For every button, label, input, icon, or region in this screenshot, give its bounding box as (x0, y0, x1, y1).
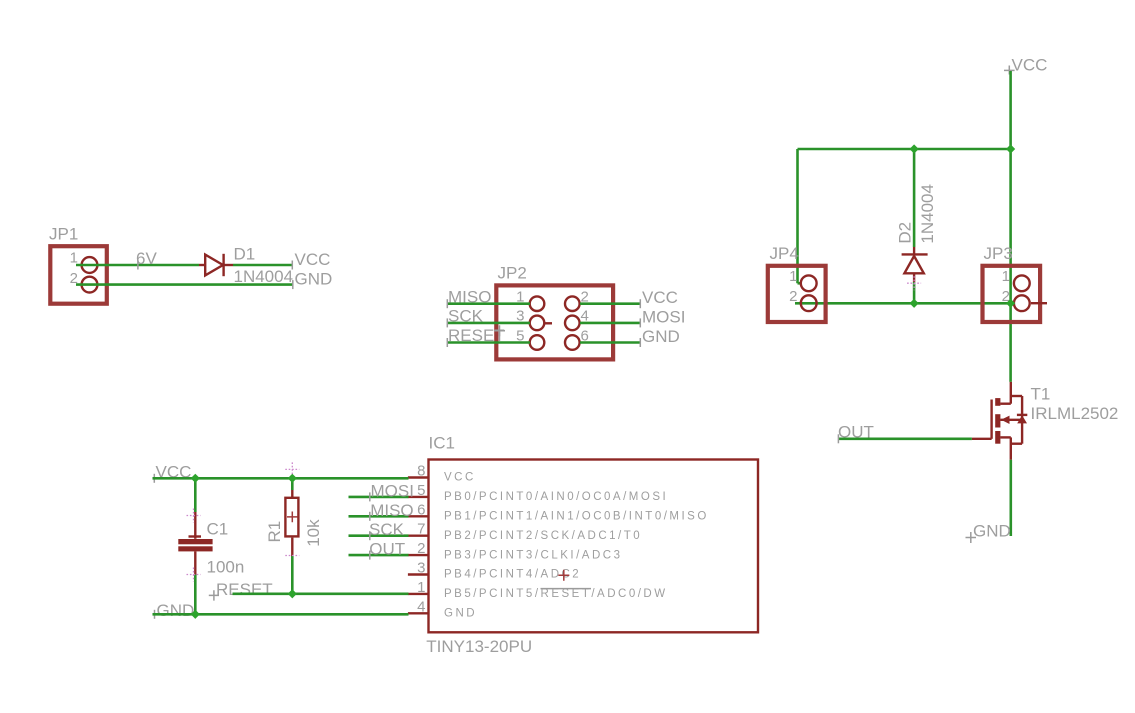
svg-text:IC1: IC1 (429, 434, 455, 453)
svg-text:1: 1 (417, 579, 425, 596)
svg-text:T1: T1 (1031, 385, 1051, 404)
svg-text:VCC: VCC (1012, 56, 1048, 75)
svg-text:GND: GND (295, 270, 333, 289)
svg-text:MOSI: MOSI (371, 481, 414, 500)
svg-text:3: 3 (417, 560, 425, 577)
svg-text:R1: R1 (265, 521, 284, 543)
svg-text:7: 7 (417, 521, 425, 538)
svg-text:1N4004: 1N4004 (234, 267, 294, 286)
svg-text:PB2/PCINT2/SCK/ADC1/T0: PB2/PCINT2/SCK/ADC1/T0 (444, 530, 642, 542)
svg-text:1: 1 (789, 268, 797, 285)
svg-text:D2: D2 (896, 222, 915, 244)
svg-text:2: 2 (417, 540, 425, 557)
svg-text:1N4004: 1N4004 (918, 184, 937, 244)
svg-text:SCK: SCK (369, 520, 405, 539)
svg-text:PB3/PCINT3/CLKI/ADC3: PB3/PCINT3/CLKI/ADC3 (444, 549, 622, 561)
svg-text:6: 6 (417, 501, 425, 518)
svg-text:C1: C1 (207, 520, 229, 539)
svg-text:MOSI: MOSI (642, 307, 685, 326)
svg-text:4: 4 (417, 598, 425, 615)
svg-text:RESET: RESET (448, 326, 505, 345)
svg-text:JP1: JP1 (49, 225, 78, 244)
svg-text:GND: GND (973, 522, 1011, 541)
svg-text:8: 8 (417, 463, 425, 480)
svg-text:100n: 100n (207, 558, 245, 577)
svg-text:GND: GND (642, 327, 680, 346)
svg-text:GND: GND (157, 601, 195, 620)
svg-text:VCC: VCC (444, 472, 476, 484)
svg-text:JP4: JP4 (770, 244, 799, 263)
svg-text:MISO: MISO (448, 287, 491, 306)
svg-text:VCC: VCC (642, 288, 678, 307)
svg-text:PB1/PCINT1/AIN1/OC0B/INT0/MISO: PB1/PCINT1/AIN1/OC0B/INT0/MISO (444, 511, 709, 523)
svg-text:PB5/PCINT5/RESET/ADC0/DW: PB5/PCINT5/RESET/ADC0/DW (444, 588, 668, 600)
svg-text:1: 1 (1002, 268, 1010, 285)
svg-text:VCC: VCC (295, 250, 331, 269)
svg-text:D1: D1 (234, 245, 256, 264)
svg-text:SCK: SCK (448, 307, 484, 326)
svg-text:OUT: OUT (838, 423, 874, 442)
svg-text:PB0/PCINT0/AIN0/OC0A/MOSI: PB0/PCINT0/AIN0/OC0A/MOSI (444, 491, 668, 503)
svg-text:GND: GND (444, 608, 477, 620)
svg-text:TINY13-20PU: TINY13-20PU (426, 637, 532, 656)
svg-text:MISO: MISO (370, 501, 413, 520)
svg-text:IRLML2502: IRLML2502 (1031, 404, 1119, 423)
svg-text:RESET: RESET (216, 580, 273, 599)
svg-text:5: 5 (417, 482, 425, 499)
svg-text:JP2: JP2 (498, 264, 527, 283)
svg-text:2: 2 (789, 288, 797, 305)
svg-text:6V: 6V (136, 249, 157, 268)
svg-text:OUT: OUT (369, 540, 405, 559)
svg-text:10k: 10k (304, 519, 323, 547)
svg-text:JP3: JP3 (984, 244, 1013, 263)
